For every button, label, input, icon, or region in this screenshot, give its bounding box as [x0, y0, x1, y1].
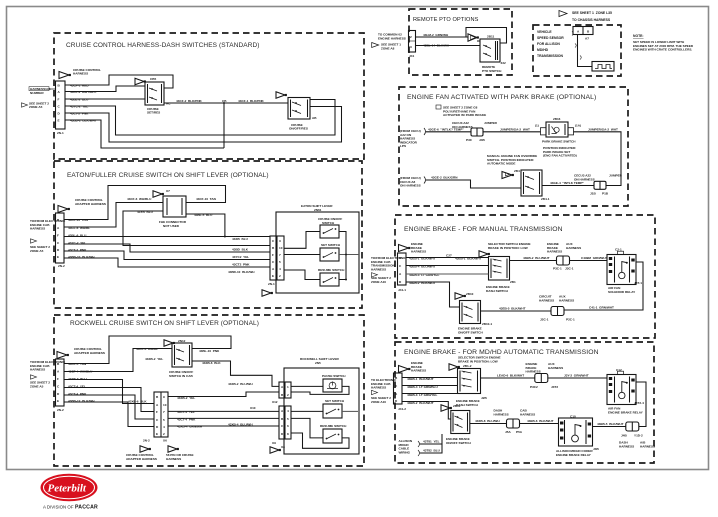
svg-text:5: 5 — [163, 418, 165, 422]
connector 2-pin — [573, 27, 593, 35]
svg-text:ROCKWELL CRUISE SWITCH ON SHIF: ROCKWELL CRUISE SWITCH ON SHIFT LEVER (O… — [70, 320, 259, 327]
flag below eaton connector — [262, 290, 271, 296]
svg-text:2: 2 — [279, 274, 281, 278]
inline hook — [424, 128, 426, 135]
svg-text:BRAKE IN POSITION: LOW: BRAKE IN POSITION: LOW — [488, 246, 528, 250]
svg-text:X12: X12 — [272, 400, 278, 404]
svg-text:4: 4 — [287, 409, 289, 413]
svg-text:HARNESS: HARNESS — [559, 298, 574, 302]
svg-text:X8: X8 — [281, 445, 285, 449]
svg-text:REMOTE PTO OPTIONS: REMOTE PTO OPTIONS — [413, 17, 479, 23]
svg-text:ADAPTER HARNESS: ADAPTER HARNESS — [75, 202, 106, 206]
svg-text:9: 9 — [163, 395, 165, 399]
wires into selector — [402, 377, 458, 379]
svg-text:HARNESS: HARNESS — [73, 72, 88, 76]
svg-text:5: 5 — [279, 260, 281, 264]
svg-text:43XB-2 YEL: 43XB-2 YEL — [145, 357, 163, 361]
Peterbilt logo — [41, 474, 98, 502]
inline connector 2-cell — [471, 128, 483, 136]
svg-text:2B10: 2B10 — [466, 292, 474, 296]
flag: lower switch — [455, 293, 464, 299]
wire: capsule to relay — [570, 260, 608, 262]
flag — [502, 172, 512, 179]
svg-text:SET SWITCH: SET SWITCH — [325, 399, 345, 403]
svg-text:Peterbilt: Peterbilt — [48, 483, 87, 495]
svg-text:2N12: 2N12 — [178, 339, 186, 343]
svg-text:E: E — [156, 432, 158, 436]
svg-text:JUMPER/GA-2 WHT: JUMPER/GA-2 WHT — [500, 128, 530, 132]
dashed enclosure: vehicle speed sensor — [533, 25, 621, 76]
svg-text:ON/OFF/RES: ON/OFF/RES — [289, 127, 308, 131]
svg-text:8: 8 — [287, 432, 289, 436]
switch: engine brake on/off — [460, 301, 481, 324]
dashed enclosure: rockwell cruise switch — [54, 315, 364, 466]
switch: engine brake selector — [458, 369, 481, 394]
svg-text:ZONE A5: ZONE A5 — [30, 249, 44, 253]
svg-text:ENGINE BRAKE - FOR MANUAL TRAN: ENGINE BRAKE - FOR MANUAL TRANSMISSION — [404, 226, 563, 233]
switch: manual fan override — [521, 170, 542, 196]
capsule connector — [557, 256, 570, 265]
svg-text:SEE SHEET 1 ZONE L35: SEE SHEET 1 ZONE L35 — [572, 11, 612, 15]
switch: cruise on/off in cab — [172, 343, 192, 367]
svg-text:PACCAR: PACCAR — [75, 505, 98, 511]
svg-text:AUTOMATIC MODE: AUTOMATIC MODE — [487, 162, 515, 166]
wire: pin A to switch left — [65, 86, 145, 92]
svg-text:2N61: 2N61 — [314, 208, 322, 212]
svg-text:PAUSE SWITCH: PAUSE SWITCH — [322, 374, 346, 378]
wire: pin F to switch left — [65, 98, 145, 100]
svg-text:JUMPER: JUMPER — [609, 174, 623, 178]
svg-text:ENGINE HARNESS: ENGINE HARNESS — [378, 36, 406, 40]
svg-text:43CZ-1 BLK/PNK: 43CZ-1 BLK/PNK — [238, 99, 265, 103]
svg-text:2B10-1: 2B10-1 — [482, 322, 492, 326]
svg-text:ADAPTER HARNESS: ADAPTER HARNESS — [74, 351, 105, 355]
wire: allison relay to capsule3 — [593, 426, 626, 428]
wire: pin D down to lower switch — [406, 282, 460, 307]
svg-text:F: F — [57, 377, 59, 381]
flag: engine brake harness — [399, 245, 409, 252]
svg-text:J3T2: J3T2 — [551, 385, 558, 389]
svg-text:HARNESS: HARNESS — [640, 444, 655, 448]
svg-text:SOLENOID RELAY: SOLENOID RELAY — [608, 290, 636, 294]
svg-text:43YC2 YEL: 43YC2 YEL — [232, 255, 249, 259]
flag: see sheet 1 zone L35 — [559, 11, 567, 17]
svg-text:2N-2: 2N-2 — [57, 408, 64, 412]
svg-text:J41-1: J41-1 — [398, 288, 406, 292]
svg-text:ON HARNESS: ON HARNESS — [400, 184, 421, 188]
svg-text:F: F — [156, 410, 158, 414]
svg-text:5: 5 — [287, 417, 289, 421]
flag — [449, 364, 458, 370]
connector 2N-1 — [56, 81, 66, 129]
svg-text:7: 7 — [163, 410, 165, 414]
svg-text:2N-2: 2N-2 — [143, 439, 150, 443]
rockwell connector upper — [279, 382, 291, 398]
capsule connector — [535, 374, 548, 383]
flag — [479, 251, 488, 257]
inline connector 2-cell lower — [594, 181, 606, 189]
flags below — [140, 446, 149, 452]
svg-text:SET/RES: SET/RES — [147, 111, 160, 115]
svg-text:VEHICLE: VEHICLE — [537, 30, 552, 34]
flag note: see sheet 2 zone G8 — [436, 105, 441, 109]
svg-text:ZONE A10: ZONE A10 — [371, 280, 386, 284]
wires into selector — [406, 257, 489, 259]
svg-text:ACTIVATED W/ PARK BRAKE: ACTIVATED W/ PARK BRAKE — [443, 113, 486, 117]
wire: lower switch to capsule2 — [470, 423, 507, 425]
svg-text:ZONE A8: ZONE A8 — [381, 46, 395, 50]
svg-text:J3T2-4: J3T2-4 — [634, 401, 644, 405]
svg-text:AB: AB — [312, 116, 317, 120]
svg-text:NOTE:: NOTE: — [633, 34, 644, 38]
svg-text:X9: X9 — [272, 441, 276, 445]
svg-text:HARNESS: HARNESS — [30, 227, 45, 231]
switch: engine brake on/off — [451, 411, 470, 434]
wire: park brake to right loop — [574, 132, 622, 186]
svg-text:P3C: P3C — [466, 138, 473, 142]
svg-text:X6: X6 — [163, 439, 167, 443]
wire: connector to sensor — [578, 35, 593, 67]
svg-text:E: E — [57, 255, 59, 259]
svg-text:(1): (1) — [535, 124, 539, 128]
svg-text:PTO SWITCH: PTO SWITCH — [482, 69, 502, 73]
svg-text:43XB-4 BLU/WH: 43XB-4 BLU/WH — [228, 423, 253, 427]
svg-text:2: 2 — [287, 393, 289, 397]
svg-text:43BD-10 BLK/WH: 43BD-10 BLK/WH — [228, 270, 255, 274]
svg-text:SWITCH: SWITCH — [322, 221, 335, 225]
connector J41 — [409, 31, 416, 53]
svg-text:J4B: J4B — [479, 138, 485, 142]
svg-text:J3T-1: J3T-1 — [634, 281, 642, 285]
svg-text:J2B: J2B — [481, 396, 487, 400]
svg-text:2N-1: 2N-1 — [268, 282, 275, 286]
svg-text:CB: CB — [222, 99, 227, 103]
svg-text:F: F — [57, 234, 59, 238]
connector 2N-2 — [56, 359, 65, 406]
capsule connector 2 — [507, 419, 520, 428]
svg-text:A7: A7 — [585, 37, 589, 41]
svg-text:CB5: CB5 — [150, 77, 156, 81]
svg-text:ENGINE FAN ACTIVATED WITH PARK: ENGINE FAN ACTIVATED WITH PARK BRAKE (OP… — [407, 94, 596, 101]
svg-text:3: 3 — [410, 45, 412, 49]
wire: relay right loop down to capsule3 — [636, 382, 646, 427]
svg-text:43XB-6 BLK: 43XB-6 BLK — [202, 361, 221, 365]
svg-text:JUMPER: JUMPER — [484, 121, 498, 125]
svg-text:2B10: 2B10 — [453, 404, 461, 408]
svg-text:TO CHASSIS HARNESS: TO CHASSIS HARNESS — [572, 18, 611, 22]
svg-text:F: F — [58, 98, 60, 102]
svg-text:43EB-5 BLK/WHT: 43EB-5 BLK/WHT — [597, 422, 624, 426]
svg-text:43GE-6 "INTLK? TEMP": 43GE-6 "INTLK? TEMP" — [428, 128, 464, 132]
svg-text:ENGINE BRAKE RELAY: ENGINE BRAKE RELAY — [556, 453, 592, 457]
svg-text:2: 2 — [163, 432, 165, 436]
svg-text:LPS: LPS — [400, 144, 406, 148]
connector J41-2 — [394, 373, 403, 404]
svg-text:2N5: 2N5 — [315, 361, 321, 365]
svg-text:ENGINE BRAKE RELAY: ENGINE BRAKE RELAY — [608, 410, 644, 414]
svg-text:RESUME SWITCH: RESUME SWITCH — [320, 424, 347, 428]
svg-text:43T82 BLU: 43T82 BLU — [423, 449, 441, 453]
svg-text:F: F — [272, 253, 274, 257]
svg-text:43XB-6 BLK: 43XB-6 BLK — [128, 400, 147, 404]
svg-text:HARNESS: HARNESS — [411, 369, 426, 373]
svg-text:43CZ-2 BLK/PNK: 43CZ-2 BLK/PNK — [176, 99, 203, 103]
capsule connector 2 — [551, 307, 564, 316]
svg-text:C27: C27 — [446, 254, 452, 258]
svg-text:TRANSMISSION: TRANSMISSION — [537, 54, 564, 58]
svg-text:43GE-4 "INTLK TEMP": 43GE-4 "INTLK TEMP" — [550, 181, 584, 185]
svg-text:P2C-1: P2C-1 — [566, 318, 575, 322]
svg-text:4: 4 — [163, 425, 165, 429]
svg-text:43EB-2 BLU/WHT: 43EB-2 BLU/WHT — [523, 256, 550, 260]
flag: cruise on/off — [276, 92, 285, 98]
wire: pin1 long top run — [64, 186, 226, 220]
fuse connector block — [163, 196, 186, 217]
flag: engine brake harness — [399, 366, 409, 373]
wires: secondary connector to rockwell connector — [168, 392, 279, 397]
svg-text:HARNESS: HARNESS — [166, 457, 181, 461]
rockwell connector lower — [279, 406, 291, 439]
wire: pin D down to lower switch — [402, 402, 451, 420]
svg-text:HARNESS: HARNESS — [520, 412, 535, 416]
connector J41-1 — [398, 253, 407, 285]
svg-text:4: 4 — [279, 267, 281, 271]
svg-text:7: 7 — [279, 253, 281, 257]
svg-text:J3C-1: J3C-1 — [565, 267, 574, 271]
eaton connector — [270, 236, 284, 280]
switch: engine brake selector — [489, 257, 510, 281]
svg-text:43EB-5 BLK/WHT: 43EB-5 BLK/WHT — [499, 307, 526, 311]
svg-text:43EB-6 BLK/WHT: 43EB-6 BLK/WHT — [527, 419, 554, 423]
svg-text:2B4-1: 2B4-1 — [541, 197, 550, 201]
wire: override to connector2 — [542, 185, 594, 187]
wire: cab switch right bottom to right bus — [192, 361, 279, 386]
speed sensor — [592, 62, 614, 72]
svg-text:ON/OFF SWITCH: ON/OFF SWITCH — [446, 441, 472, 445]
dashed enclosure: PTO options — [409, 9, 512, 75]
svg-text:43BL-10 PNK: 43BL-10 PNK — [199, 349, 220, 353]
svg-text:LEAD-6 BLK/WHT: LEAD-6 BLK/WHT — [497, 374, 524, 378]
dashed enclosure: engine brake manual — [395, 215, 655, 338]
flag: lower switch — [441, 405, 450, 411]
svg-text:2N-2: 2N-2 — [58, 264, 65, 268]
svg-text:ON/OFF SWITCH: ON/OFF SWITCH — [458, 330, 484, 334]
svg-text:J41: J41 — [409, 54, 414, 58]
svg-text:43GE-2 BLK/GRN: 43GE-2 BLK/GRN — [431, 176, 458, 180]
svg-text:Y1D-2: Y1D-2 — [634, 434, 643, 438]
svg-text:43XB BLU: 43XB BLU — [232, 237, 249, 241]
wire: switch to cruise on/off switch — [164, 102, 288, 104]
flag: see sheet 2 zone A5 — [22, 103, 28, 107]
wire: pin D down and right — [65, 107, 342, 143]
svg-text:ENGINE BRAKE - FOR MD/HD AUTOM: ENGINE BRAKE - FOR MD/HD AUTOMATIC TRANS… — [404, 349, 599, 356]
svg-text:C41-1 GRN/WHT: C41-1 GRN/WHT — [589, 306, 614, 310]
capsule connector 3 — [626, 422, 639, 431]
svg-text:BRAKE IN POSITION: LOW: BRAKE IN POSITION: LOW — [458, 359, 498, 363]
svg-text:(1A): (1A) — [575, 124, 581, 128]
svg-text:SWITCH IN CAB: SWITCH IN CAB — [169, 374, 193, 378]
svg-text:FOR ALLISON: FOR ALLISON — [537, 42, 560, 46]
svg-text:(ENG FAN ACTIVATED): (ENG FAN ACTIVATED) — [543, 154, 577, 158]
dashed enclosure: engine brake MD/HD auto — [395, 342, 654, 463]
wire: fuse right bottom — [186, 214, 225, 237]
svg-text:WIRING: WIRING — [399, 450, 411, 454]
wire: pin3 down to secondary connector — [64, 380, 154, 404]
wire: relay right loop down — [564, 262, 643, 310]
pin wire labels — [70, 84, 97, 123]
svg-text:HARNESS: HARNESS — [547, 250, 562, 254]
svg-text:6: 6 — [287, 424, 289, 428]
svg-text:EATON/FULLER CRUISE SWITCH ON: EATON/FULLER CRUISE SWITCH ON SHIFT LEVE… — [67, 172, 269, 179]
wire to override switch — [426, 180, 521, 188]
flag: cruise control adapter harness — [57, 352, 67, 359]
svg-text:J41-2: J41-2 — [398, 407, 406, 411]
wire: pin2 to cab switch left — [64, 349, 172, 372]
svg-text:SET SWITCH: SET SWITCH — [321, 243, 341, 247]
svg-text:43CF-6 WH/BLU: 43CF-6 WH/BLU — [127, 197, 152, 201]
svg-text:HARNESS: HARNESS — [548, 366, 563, 370]
svg-text:ADAPTER HARNESS: ADAPTER HARNESS — [126, 457, 157, 461]
wire: flag to switch — [416, 41, 481, 46]
svg-text:E: E — [272, 274, 274, 278]
svg-text:DASH SWITCH: DASH SWITCH — [486, 289, 509, 293]
svg-text:43CF-10 TAN: 43CF-10 TAN — [196, 197, 217, 201]
flag: remote pto switch — [468, 34, 477, 41]
svg-text:NUMBER: NUMBER — [30, 91, 44, 95]
svg-text:A DIVISION OF: A DIVISION OF — [43, 505, 74, 510]
svg-text:C499M GRN/WHT: C499M GRN/WHT — [581, 256, 608, 260]
dashed enclosure: engine fan with park brake — [399, 87, 628, 206]
switch: cruise set/resume — [145, 82, 164, 105]
svg-text:RESUME SWITCH: RESUME SWITCH — [318, 268, 345, 272]
flag: cab switch — [164, 340, 173, 346]
svg-text:SPEED SENSOR: SPEED SENSOR — [537, 36, 564, 40]
svg-text:X10: X10 — [250, 406, 256, 410]
flag: fuse connector — [153, 191, 162, 197]
svg-text:HARNESS: HARNESS — [539, 298, 554, 302]
svg-text:43BD BLK: 43BD BLK — [232, 248, 249, 252]
hook wires — [418, 441, 420, 447]
svg-text:2B1: 2B1 — [510, 280, 516, 284]
svg-text:P5A: P5A — [516, 430, 523, 434]
svg-text:HARNESS: HARNESS — [566, 246, 581, 250]
svg-text:P1B: P1B — [602, 192, 609, 196]
svg-text:HARNESS: HARNESS — [30, 368, 45, 372]
flag below rockwell connector — [270, 447, 279, 453]
wires: rockwell internal — [291, 385, 323, 387]
dashed enclosure: eaton/fuller cruise switch — [54, 161, 362, 308]
svg-text:ZONE A5: ZONE A5 — [30, 384, 44, 388]
svg-text:J4B: J4B — [621, 434, 627, 438]
svg-text:J1B: J1B — [590, 192, 596, 196]
svg-text:2B11: 2B11 — [487, 35, 495, 39]
svg-text:43XB-8 BLU/WH: 43XB-8 BLU/WH — [475, 419, 500, 423]
inline hook — [424, 177, 426, 184]
svg-text:2: 2 — [410, 35, 412, 39]
svg-text:ZONE A5: ZONE A5 — [29, 105, 43, 109]
svg-text:43CT2 PNK: 43CT2 PNK — [232, 263, 250, 267]
wire: pin E down and right — [65, 120, 224, 148]
svg-text:NOT USED: NOT USED — [163, 224, 180, 228]
secondary connector — [154, 392, 168, 437]
svg-text:HARNESS: HARNESS — [371, 267, 386, 271]
wire: to park brake switch — [426, 131, 541, 133]
svg-text:J3Y-2 GRN/WHT: J3Y-2 GRN/WHT — [564, 374, 589, 378]
pin labels — [68, 218, 95, 259]
svg-text:43T81 YEL: 43T81 YEL — [423, 440, 440, 444]
wire: selector right to capsule — [510, 260, 557, 262]
svg-text:HARNESS: HARNESS — [371, 386, 386, 390]
svg-text:P3C2: P3C2 — [530, 385, 538, 389]
svg-text:ZONE A10: ZONE A10 — [371, 400, 386, 404]
svg-text:MD/HD: MD/HD — [537, 48, 549, 52]
wire: pin1 top loop over cab switch — [64, 336, 231, 364]
svg-text:X7: X7 — [166, 189, 170, 193]
svg-text:43XB-2 BLU/WH: 43XB-2 BLU/WH — [228, 382, 253, 386]
svg-text:J5A: J5A — [505, 430, 511, 434]
dashed enclosure: cruise control dash switches — [54, 33, 364, 159]
svg-text:43LM-2 GRN/WH: 43LM-2 GRN/WH — [423, 33, 449, 37]
svg-text:J3B: J3B — [593, 447, 599, 451]
svg-text:J32: J32 — [501, 61, 506, 65]
switch: cruise on/off — [288, 98, 310, 120]
connector 2N-2 — [56, 213, 65, 263]
svg-text:ENGINES WITH CRATE CONTROLLERS: ENGINES WITH CRATE CONTROLLERS. — [633, 48, 692, 52]
wire: capsule2 to allison relay — [520, 423, 559, 425]
wire: fuse left bottom — [123, 211, 270, 246]
svg-text:HARNESS: HARNESS — [619, 444, 634, 448]
svg-text:E: E — [57, 399, 59, 403]
wire: selector to capsule — [481, 377, 535, 379]
wire: lower switch to capsule2 — [481, 310, 552, 312]
wire: pins down to secondary connector — [64, 388, 154, 412]
wire: pin C down and right — [65, 100, 335, 136]
svg-text:2B1-2: 2B1-2 — [463, 364, 472, 368]
wire: fuse left top — [64, 203, 163, 228]
svg-text:PARK BRAKE SWITCH: PARK BRAKE SWITCH — [542, 140, 576, 144]
svg-text:1: 1 — [287, 385, 289, 389]
flag: set/resume switch — [135, 78, 144, 84]
switch: remote pto — [480, 39, 500, 62]
svg-text:J2C-1: J2C-1 — [540, 318, 549, 322]
pin labels — [68, 362, 95, 403]
svg-text:HARNESS: HARNESS — [494, 412, 509, 416]
flag: cruise control adapter harness — [58, 206, 68, 213]
wire: pin B over switch top — [65, 75, 173, 88]
svg-text:2B16: 2B16 — [553, 117, 561, 121]
svg-text:E: E — [58, 119, 60, 123]
svg-text:HARNESS: HARNESS — [411, 250, 426, 254]
svg-text:43CT-4 YEL: 43CT-4 YEL — [177, 410, 195, 414]
svg-text:JUMPER/GA-2 WHT: JUMPER/GA-2 WHT — [588, 128, 618, 132]
wires: connector to eaton connector — [64, 236, 270, 238]
wire: pin2 with top loop — [416, 36, 469, 38]
wire: capsule to relay — [548, 377, 607, 379]
svg-text:10: 10 — [279, 246, 283, 250]
flag: cruise control harness — [59, 72, 69, 79]
svg-text:10: 10 — [163, 403, 167, 407]
wire: junction drop — [223, 103, 225, 148]
svg-text:2N-1: 2N-1 — [57, 131, 64, 135]
svg-text:CRUISE CONTROL HARNESS-DASH SW: CRUISE CONTROL HARNESS-DASH SWITCHES (ST… — [66, 42, 260, 49]
svg-text:P3C-1: P3C-1 — [553, 267, 562, 271]
svg-text:2B4: 2B4 — [514, 169, 520, 173]
svg-text:3: 3 — [279, 239, 281, 243]
wires: eaton connector to switches — [284, 232, 320, 249]
